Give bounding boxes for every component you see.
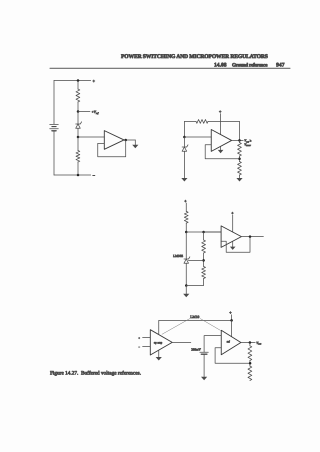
- header section number and title: [214, 62, 268, 68]
- op-amp A2: [211, 130, 231, 152]
- svg-text:+: +: [219, 109, 222, 114]
- leader line LM10 to A4: [162, 319, 190, 335]
- wire V+ into A5: [231, 320, 233, 336]
- wire A2 output to divider: [239, 140, 241, 142]
- header page number 947: [276, 62, 285, 68]
- svg-text:POWER SWITCHING AND MICROPOWER: POWER SWITCHING AND MICROPOWER REGULATOR…: [121, 54, 268, 60]
- wire A4 noninverting input: [143, 336, 151, 338]
- wire LM385 adj pin: [188, 259, 203, 261]
- resistor R3 feedback: [196, 120, 208, 124]
- wire R7 to adj node: [203, 253, 205, 267]
- svg-text:−: −: [93, 173, 96, 178]
- svg-text:LM385: LM385: [173, 254, 183, 258]
- resistor R5: [238, 162, 242, 176]
- node divider circuit 2: [238, 158, 241, 161]
- node LM385 adj divider: [202, 259, 205, 262]
- wire battery to A5 input: [204, 336, 221, 353]
- node Vref tap: [77, 110, 80, 113]
- wire battery to ground: [203, 354, 205, 377]
- svg-text:+: +: [229, 310, 232, 315]
- figure caption: [50, 370, 141, 376]
- wire LM385 to bottom node: [185, 263, 187, 285]
- svg-text:+: +: [93, 78, 96, 83]
- wire A4 ground pin: [158, 350, 160, 357]
- node zener input circuit 2: [183, 136, 186, 139]
- wire A1 feedback loop: [98, 140, 126, 157]
- node bottom rail junction: [77, 174, 80, 177]
- wire A2 ground pin: [220, 146, 222, 150]
- node battery + terminal: [77, 79, 80, 82]
- label + (positive terminal): [93, 78, 96, 83]
- resistor R8: [202, 267, 206, 279]
- zener diode D2: [182, 145, 188, 152]
- svg-text:op amp: op amp: [154, 342, 163, 345]
- resistor R6: [184, 211, 188, 223]
- wire bottom rail circuit 1: [54, 174, 91, 176]
- svg-text:+: +: [184, 198, 187, 203]
- svg-text:947: 947: [276, 62, 285, 68]
- wire A3 feedback loop: [221, 237, 250, 253]
- wire feedback rail top right: [208, 121, 240, 140]
- resistor R4: [238, 143, 242, 157]
- wire A2 output: [232, 139, 244, 141]
- wire A4 top to LM10 rail: [159, 320, 232, 334]
- resistor R9: [248, 346, 252, 361]
- svg-text:Ground reference: Ground reference: [232, 62, 268, 68]
- wire V+ supply to A3: [232, 215, 234, 232]
- wire R6 to reference node: [185, 223, 187, 232]
- header running title: [121, 54, 268, 60]
- battery B2 200mV reference: [200, 352, 209, 354]
- resistor R2: [76, 151, 80, 163]
- label Vout circuit 4: [256, 341, 261, 346]
- label V+ supply circuit 3: [184, 198, 187, 203]
- leader line LM10 to A5: [200, 319, 220, 331]
- svg-text:14.08: 14.08: [214, 62, 227, 68]
- wire V+ to resistor R6: [185, 203, 187, 211]
- wire A3 ground pin: [232, 241, 234, 246]
- wire A1 output: [124, 139, 135, 141]
- wire battery positive lead: [53, 81, 55, 125]
- label 200mV: [191, 347, 201, 351]
- wire Vref tap stub: [78, 111, 90, 113]
- op-amp A1 follower: [104, 131, 124, 150]
- wire bottom to ground circuit 3: [185, 286, 187, 294]
- label - (negative terminal): [93, 173, 96, 178]
- wire R5 to ground: [239, 175, 241, 178]
- svg-text:+: +: [138, 337, 140, 340]
- op-amp A3: [221, 226, 241, 248]
- ground symbol battery: [201, 377, 207, 381]
- svg-text:−: −: [138, 346, 140, 349]
- header rule: [50, 67, 290, 69]
- ground symbol A4: [156, 357, 162, 361]
- wire V+ supply to A2: [220, 114, 222, 135]
- wire R8 to bottom rail: [186, 279, 203, 286]
- svg-text:Vout: Vout: [256, 341, 261, 346]
- wire R4 to node: [239, 156, 241, 162]
- label A4 - input: [138, 346, 140, 349]
- resistor R1: [76, 89, 80, 102]
- wire R1 to Vref node: [77, 102, 79, 112]
- ground symbol A3 supply: [230, 247, 236, 250]
- wire zener node down: [183, 137, 185, 147]
- wire A5 feedback: [215, 348, 250, 363]
- wire A3 output: [241, 236, 263, 238]
- resistor R7: [202, 240, 206, 253]
- wire top rail circuit 1: [54, 80, 91, 82]
- svg-text:Figure 14.27. Buffered voltag: Figure 14.27. Buffered voltage reference…: [50, 370, 141, 376]
- label Vout of circuit 2: [244, 139, 251, 144]
- wire noninverting input A3: [204, 231, 222, 233]
- zener diode D1: [76, 122, 82, 129]
- wire zener D1 to opamp node: [77, 128, 79, 137]
- ground symbol circuit 1 output: [132, 145, 138, 149]
- label A4 + input: [138, 337, 140, 340]
- label +Vref: [92, 110, 99, 115]
- svg-text:ref: ref: [227, 341, 230, 344]
- label op amp: [154, 342, 163, 345]
- node LM10 V+ junction: [230, 319, 233, 322]
- wire A5 output: [241, 342, 255, 344]
- wire A2 inverting feedback: [205, 145, 239, 159]
- ground symbol zener circuit 2: [181, 178, 187, 182]
- wire reference rail: [186, 231, 221, 233]
- wire V+ to LM10 rail: [231, 315, 233, 321]
- wire battery negative lead: [53, 131, 55, 175]
- svg-text:LM10: LM10: [190, 315, 199, 319]
- wire output to divider R9: [249, 343, 251, 346]
- svg-text:+: +: [231, 210, 234, 215]
- wire noninverting input A2: [184, 136, 211, 138]
- battery B1: [50, 124, 59, 130]
- label LM385: [173, 254, 183, 258]
- node bottom circuit 3: [185, 284, 188, 287]
- wire zener D2 to ground: [183, 151, 185, 178]
- wire noninverting input A1: [78, 136, 104, 138]
- node A3 output: [249, 235, 252, 238]
- wire R9 to node: [249, 361, 251, 367]
- node A2 output: [238, 139, 241, 142]
- node reference rail middle: [202, 231, 205, 234]
- wire R2 to bottom rail: [77, 162, 79, 175]
- wire rail to LM385: [185, 232, 187, 259]
- node reference rail left: [185, 231, 188, 234]
- node zener output: [77, 136, 80, 139]
- label V+ supply LM10: [229, 310, 232, 315]
- label Vzener: [244, 143, 251, 148]
- wire feedback rail top left: [184, 121, 196, 137]
- label LM10: [190, 315, 199, 319]
- zener LM385: [184, 257, 190, 264]
- svg-text:+Vref: +Vref: [92, 110, 99, 115]
- op-amp A4 (LM10 op amp): [150, 330, 172, 355]
- ground symbol divider circuit 2: [236, 178, 242, 182]
- wire top rail to resistor R1: [77, 81, 79, 90]
- wire Vref node to zener D1: [77, 112, 79, 125]
- ground symbol circuit 3: [183, 294, 189, 298]
- svg-text:200mV: 200mV: [191, 347, 201, 351]
- wire rail to resistor R7: [203, 232, 205, 240]
- wire output to ground: [134, 140, 136, 145]
- label ref: [227, 341, 230, 344]
- resistor R10: [248, 366, 252, 381]
- wire A4 inverting input: [143, 346, 151, 348]
- ground symbol A2 supply: [218, 150, 224, 153]
- op-amp A5 (LM10 reference): [221, 330, 241, 354]
- wire zener node to resistor R2: [77, 137, 79, 151]
- node divider circuit 4: [249, 362, 252, 365]
- node A1 output: [124, 139, 127, 142]
- label V+ supply A3: [231, 210, 234, 215]
- label V+ supply circuit 2: [219, 109, 222, 114]
- node A5 output: [249, 341, 252, 344]
- wire A4 output stub: [172, 341, 191, 343]
